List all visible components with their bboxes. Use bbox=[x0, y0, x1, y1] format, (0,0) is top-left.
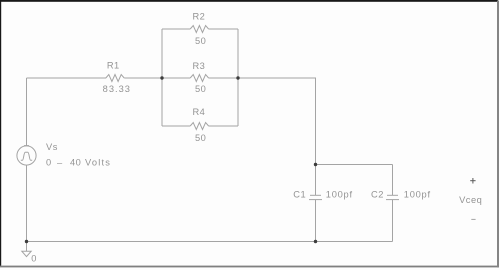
border frame top bbox=[0, 0, 498, 2]
svg-text:50: 50 bbox=[195, 133, 206, 143]
wire left rail of parallel resistors bbox=[161, 29, 163, 126]
capacitor C2 bbox=[387, 194, 398, 196]
svg-text:R2: R2 bbox=[192, 12, 205, 22]
svg-text:Vceq: Vceq bbox=[459, 195, 482, 205]
svg-text:Volts: Volts bbox=[85, 158, 111, 168]
svg-text:50: 50 bbox=[195, 84, 206, 94]
svg-text:83.33: 83.33 bbox=[103, 84, 131, 94]
capacitor C1 bbox=[310, 194, 321, 196]
voltage source waveform bump bbox=[21, 152, 32, 160]
junction node dots bbox=[25, 76, 317, 243]
wire left vertical above source bbox=[26, 78, 28, 146]
resistor R2 bbox=[190, 26, 208, 33]
svg-text:40: 40 bbox=[70, 158, 81, 168]
svg-text:100pf: 100pf bbox=[404, 190, 431, 200]
svg-text:R3: R3 bbox=[192, 61, 205, 71]
svg-text:0: 0 bbox=[31, 254, 37, 264]
svg-text:50: 50 bbox=[195, 36, 206, 46]
ground triangle bbox=[22, 251, 31, 256]
voltage source Vs circle bbox=[17, 146, 36, 165]
wire R3 to right rail and to cap column bbox=[209, 77, 316, 79]
node right rail bbox=[236, 76, 239, 79]
wire cap top link bbox=[316, 164, 393, 166]
border frame left bbox=[0, 0, 1, 267]
resistor R3 bbox=[190, 75, 208, 82]
wire R4 branch right lead bbox=[209, 125, 238, 127]
node left rail bbox=[160, 76, 163, 79]
svg-text:R4: R4 bbox=[192, 107, 205, 117]
border frame right bbox=[497, 1, 499, 268]
svg-text:0: 0 bbox=[46, 158, 52, 168]
svg-text:100pf: 100pf bbox=[326, 190, 353, 200]
resistor R1 bbox=[106, 75, 124, 82]
wire left vertical below source bbox=[26, 165, 28, 241]
wire main horizontal node line y=78 bbox=[27, 77, 107, 79]
wire R2 branch right lead bbox=[209, 28, 238, 30]
svg-text:–: – bbox=[57, 158, 63, 168]
svg-text:R1: R1 bbox=[107, 60, 120, 70]
svg-text:C2: C2 bbox=[371, 190, 384, 200]
border frame bottom bbox=[0, 266, 499, 268]
minus sign of Vceq bbox=[471, 218, 475, 220]
wire cap column vertical upper bbox=[315, 78, 317, 195]
wire C2 vertical upper bbox=[392, 165, 394, 196]
wire right rail of parallel resistors bbox=[237, 29, 239, 126]
voltage source plus tick bbox=[24, 145, 29, 147]
ground stub bbox=[26, 242, 28, 252]
svg-text:C1: C1 bbox=[293, 190, 306, 200]
wire R2 branch left lead bbox=[162, 28, 190, 30]
wire below C2 bbox=[392, 200, 394, 242]
wire R1 to left rail bbox=[124, 77, 190, 79]
svg-text:Vs: Vs bbox=[46, 142, 58, 152]
wire below C1 bbox=[315, 200, 317, 242]
wire R4 branch left lead bbox=[162, 125, 190, 127]
wire bottom return line bbox=[27, 241, 393, 243]
node ground bbox=[25, 240, 28, 243]
resistor R4 bbox=[190, 123, 208, 130]
plus sign of Vceq bbox=[470, 178, 475, 184]
node cap top bbox=[314, 163, 317, 166]
node cap bottom bbox=[314, 240, 317, 243]
